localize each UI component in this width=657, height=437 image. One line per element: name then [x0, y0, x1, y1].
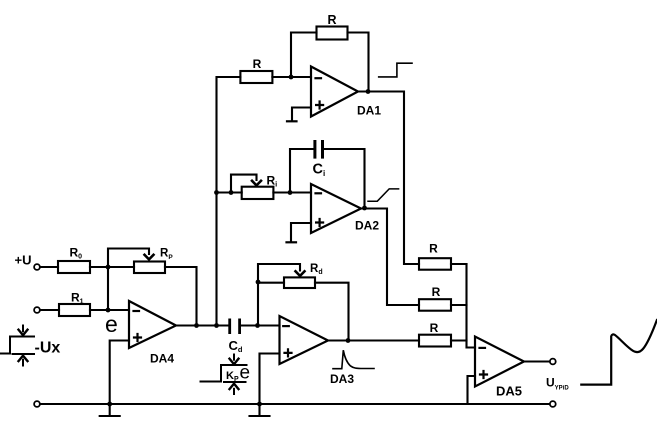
node R0 / Rp junction: [106, 265, 111, 270]
wire DA2 output to summing resistor R middle: [361, 209, 419, 306]
wire DA4 non-inverting input to bottom bus: [110, 341, 129, 405]
node Rd left junction: [256, 280, 261, 285]
svg-text:KP: KP: [226, 370, 239, 383]
svg-text:R: R: [430, 321, 439, 335]
wire Ri to DA2 inverting input: [273, 191, 311, 193]
op-amp DA4: [129, 301, 176, 348]
svg-text:DA3: DA3: [330, 372, 354, 386]
wire Rd left vertical: [258, 264, 300, 326]
node DA2 output: [362, 206, 367, 211]
terminal bottom left: [34, 401, 40, 407]
resistor R0: [58, 261, 90, 273]
node Rp feedback junction: [194, 323, 199, 328]
svg-text:R: R: [327, 13, 336, 27]
svg-text:R0: R0: [70, 245, 83, 260]
svg-text:-Ux: -Ux: [35, 340, 61, 357]
node Rd feedback junction: [255, 323, 260, 328]
wire DA2 non-inverting input to ground: [291, 223, 311, 241]
wire DA4 output line: [176, 324, 228, 326]
wire DA5 output: [524, 360, 550, 362]
capacitor Ci: [313, 140, 324, 159]
node bus / Ri junction: [214, 190, 219, 195]
potentiometer Rd: [296, 271, 305, 276]
wire DA1 feedback left leg: [291, 33, 317, 78]
wire Ci feedback right leg to output: [324, 149, 365, 208]
svg-text:e: e: [105, 311, 118, 337]
waveform pulse at DA3 output: [333, 350, 374, 369]
svg-text:R: R: [432, 285, 441, 299]
ground (DA1 +input): [287, 120, 297, 122]
svg-text:DA1: DA1: [357, 104, 381, 118]
op-amp DA1: [311, 67, 358, 117]
wire sum top R to collector: [451, 263, 467, 265]
wire main bus from DA4 output up to DA1 input: [217, 77, 241, 326]
svg-text:Ci: Ci: [313, 162, 326, 179]
wire sum bottom R to collector: [451, 339, 467, 341]
svg-text:DA4: DA4: [150, 352, 174, 366]
svg-text:e: e: [240, 363, 251, 384]
wire DA1 output to summing resistor R top: [358, 92, 419, 265]
terminal DA5 output: [550, 359, 556, 365]
wire Cd to DA3 inverting input: [241, 324, 280, 326]
svg-text:R: R: [429, 242, 438, 256]
wire DA1 feedback right leg to output: [348, 33, 369, 92]
node DA3 output: [346, 338, 351, 343]
resistor R (DA1 input): [240, 71, 272, 83]
wire DA1 input resistor to inverting input: [272, 76, 311, 78]
resistor R (sum top): [419, 258, 451, 270]
svg-text:DA5: DA5: [496, 384, 522, 399]
ground (bus left): [100, 404, 120, 416]
node main bus junction: [214, 323, 219, 328]
node DA1 inverting input junction: [289, 75, 294, 80]
svg-text:DA2: DA2: [355, 218, 379, 232]
op-amp DA5: [475, 337, 524, 387]
waveform PID output response: [581, 320, 657, 385]
waveform Kp*e step: [201, 365, 247, 382]
node bus / DA3 +input: [257, 402, 262, 407]
ground (bus middle): [250, 404, 270, 416]
wire R0 to Rp: [90, 266, 134, 268]
wire DA3 non-inverting input to bottom bus: [260, 354, 280, 405]
svg-text:+U: +U: [15, 253, 32, 268]
capacitor Cd: [228, 319, 241, 335]
terminal +U input: [34, 264, 40, 270]
node bus / DA4 +input: [107, 402, 112, 407]
node DA1 output: [366, 89, 371, 94]
potentiometer Ri: [242, 187, 274, 199]
resistor R (DA1 feedback): [317, 27, 348, 40]
wire +U to R0: [40, 266, 58, 268]
op-amp DA3: [280, 316, 329, 364]
terminal bottom right: [550, 401, 556, 407]
op-amp DA2: [311, 184, 361, 233]
wire bus to potentiometer Ri: [217, 191, 242, 193]
ground (DA2 +input): [287, 241, 297, 243]
node Ri wiper bypass junction: [229, 190, 234, 195]
resistor R (sum middle): [419, 299, 451, 311]
svg-text:Ri: Ri: [267, 173, 278, 188]
svg-text:R1: R1: [71, 291, 84, 306]
wire Rd right leg to DA3 output: [315, 283, 349, 341]
potentiometer Rp: [134, 262, 165, 274]
svg-text:Rd: Rd: [310, 263, 323, 276]
wire collector to DA5 inverting input: [467, 264, 476, 348]
svg-text:Cd: Cd: [229, 338, 243, 354]
resistor R1: [59, 304, 90, 316]
wire Rp to DA4 output: [165, 267, 197, 326]
node DA2 inverting input junction: [288, 190, 293, 195]
svg-text:UYPiD: UYPiD: [546, 375, 569, 391]
svg-text:RP: RP: [160, 247, 173, 261]
wire DA3 output to summing resistor R bottom: [328, 339, 419, 341]
wire terminal to R1: [40, 309, 59, 311]
waveform ramp at DA2 output: [368, 189, 399, 201]
wire DA5 non-inverting input to bottom bus: [468, 376, 476, 404]
wire bottom bus: [40, 403, 550, 405]
node R1 junction: [106, 308, 111, 313]
terminal input 2: [34, 307, 40, 313]
waveform -Ux input step: [0, 337, 34, 355]
waveform step at DA1 output: [379, 63, 412, 77]
wire R1 to DA4 inverting input: [90, 309, 129, 311]
svg-text:R: R: [253, 57, 262, 71]
wire Ci feedback left leg: [290, 149, 313, 193]
wire DA1 non-inverting input to ground: [292, 108, 311, 121]
wire R0 node to R1 node: [107, 267, 109, 310]
wire sum middle R to collector: [451, 304, 467, 306]
resistor R (sum bottom): [419, 335, 451, 347]
